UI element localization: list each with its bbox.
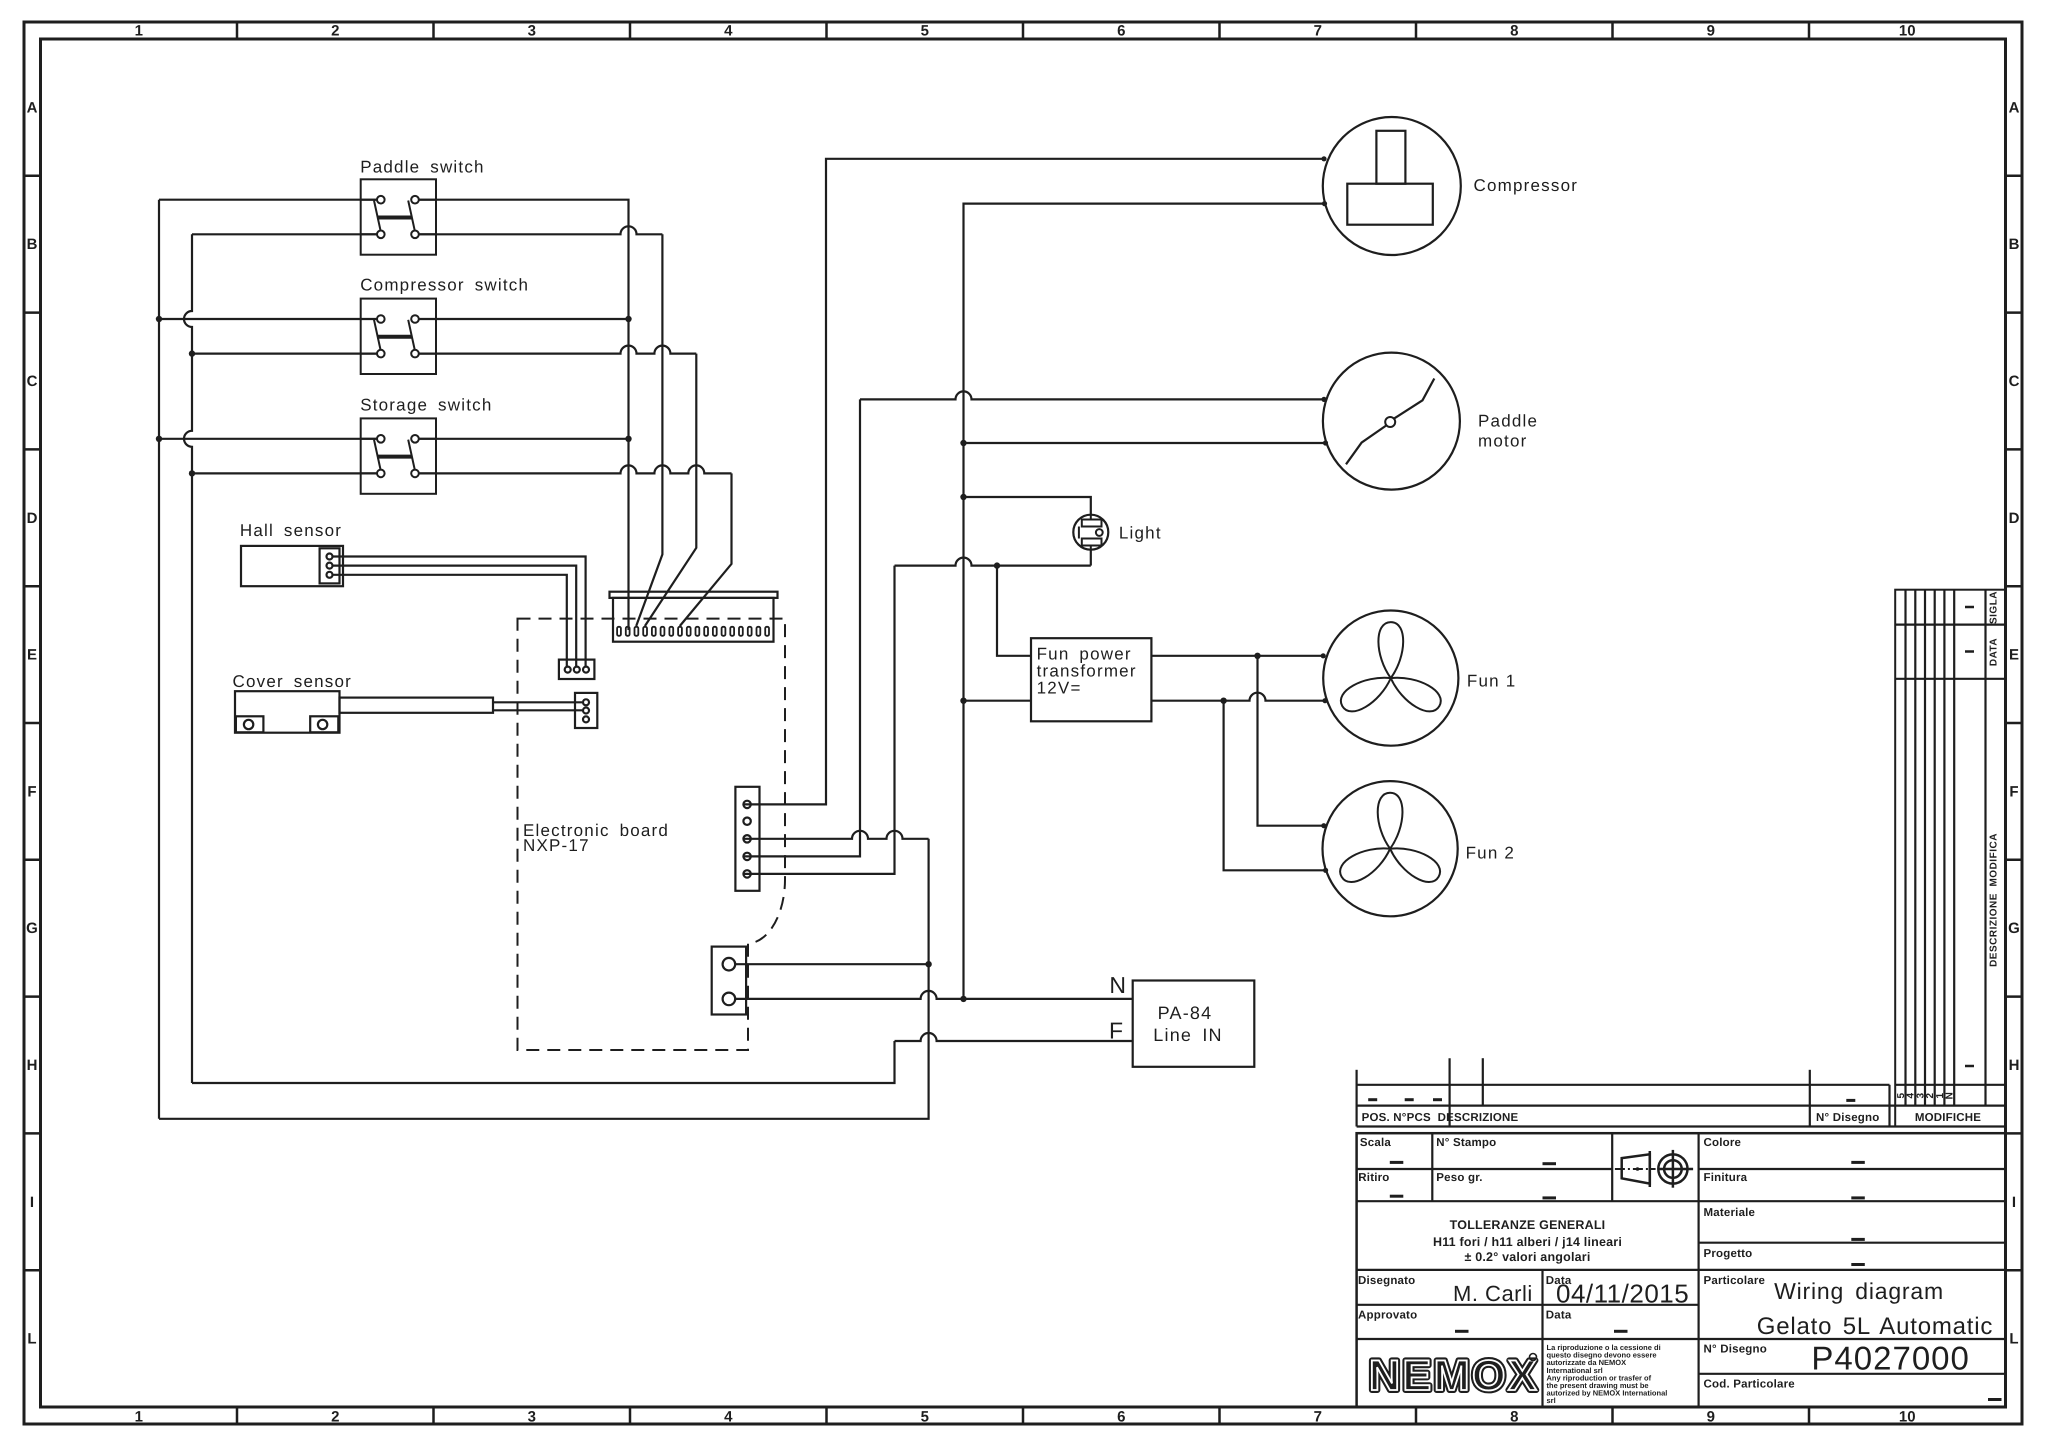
wire: hall pin2 to board J1 pin2 [333, 566, 577, 667]
Hall sensor pins [327, 554, 333, 578]
Paddle switch box [361, 179, 436, 254]
wire: cover sensor lead 2 to board J2 pin2 [493, 709, 582, 711]
junction: x=963.5 / light feed [960, 494, 966, 500]
junction: Fun2 top terminal [1321, 823, 1326, 828]
svg-text:C: C [27, 373, 38, 390]
svg-text:E: E [2009, 647, 2019, 664]
svg-text:Progetto: Progetto [1704, 1248, 1753, 1260]
junction: x=628.5 / S2 top [625, 316, 631, 322]
svg-text:A: A [2009, 99, 2020, 116]
svg-text:± 0.2° valori angolari: ± 0.2° valori angolari [1464, 1250, 1590, 1264]
junction: x=963.5 / N wire [960, 996, 966, 1002]
svg-text:SIGLA: SIGLA [1989, 591, 2000, 624]
svg-text:1: 1 [135, 23, 143, 40]
svg-text:Cover sensor: Cover sensor [233, 672, 353, 691]
svg-text:7: 7 [1314, 23, 1322, 40]
Paddle switch contacts [374, 196, 419, 238]
junction: compressor bottom terminal [1322, 201, 1327, 206]
svg-text:NXP-17: NXP-17 [523, 836, 590, 855]
junction: bus L1 / S3 top feed [156, 436, 162, 442]
column numbers top band [135, 23, 1916, 40]
fan Fun 2 propeller [1335, 793, 1444, 888]
transformer T1 box [1031, 638, 1151, 721]
junction: bus L1 / S2 top feed [156, 316, 162, 322]
svg-text:2: 2 [331, 23, 339, 40]
junction: x=1223.6 tap [1220, 698, 1226, 704]
svg-text:I: I [30, 1194, 34, 1211]
Hall sensor body [241, 546, 343, 586]
svg-text:12V=: 12V= [1037, 679, 1082, 698]
svg-text:8: 8 [1510, 23, 1518, 40]
svg-text:Paddle: Paddle [1478, 411, 1538, 430]
revision column numbers [1896, 1092, 1956, 1100]
svg-text:1: 1 [135, 1409, 143, 1426]
junction: paddle motor bottom terminal [1323, 440, 1328, 445]
wire: J3 pin3 to bottom run via x=928.6 (hops over x=860, x=894.5) [743, 831, 928, 839]
wire: bus L2 bottom run to PA-84 F via x=894.5 (hop at x=928.6) [192, 1041, 895, 1083]
wire: S3 top output joins x=628.5 [419, 438, 629, 440]
svg-text:H: H [2009, 1057, 2020, 1074]
board power connector J4 terminal 1 [723, 958, 736, 971]
switch S1 Paddle switch [360, 158, 485, 255]
svg-text:A: A [27, 99, 38, 116]
svg-text:Materiale: Materiale [1704, 1207, 1756, 1219]
svg-text:E: E [27, 647, 37, 664]
compressor M1 circle [1323, 117, 1461, 255]
svg-text:H: H [27, 1057, 38, 1074]
svg-text:Fun 2: Fun 2 [1466, 844, 1515, 863]
compressor symbol piston [1376, 131, 1405, 184]
svg-text:L: L [27, 1331, 36, 1348]
Compressor switch box [361, 299, 436, 374]
svg-text:Compressor: Compressor [1474, 176, 1579, 195]
svg-text:Colore: Colore [1704, 1137, 1742, 1149]
board connector J1 pins [565, 667, 589, 673]
svg-text:Line IN: Line IN [1153, 1025, 1222, 1045]
svg-text:N: N [1109, 972, 1126, 998]
compressor symbol base [1347, 184, 1433, 225]
title block field labels [1358, 1137, 1795, 1391]
svg-text:motor: motor [1478, 431, 1527, 450]
svg-text:NEMOX: NEMOX [1369, 1352, 1539, 1400]
svg-text:5: 5 [921, 1409, 929, 1426]
svg-text:N° Disegno: N° Disegno [1816, 1112, 1879, 1124]
svg-text:Light: Light [1119, 524, 1162, 543]
paddle motor M2 circle [1323, 353, 1460, 490]
svg-text:Peso gr.: Peso gr. [1436, 1172, 1482, 1184]
svg-text:7: 7 [1314, 1409, 1322, 1426]
Cover sensor cable sheath [340, 698, 494, 713]
svg-text:Fun 1: Fun 1 [1467, 672, 1516, 691]
row letters left band [26, 99, 38, 1347]
Cover sensor body [235, 691, 340, 733]
svg-text:Gelato 5L Automatic: Gelato 5L Automatic [1757, 1313, 1993, 1340]
first-angle projection symbol [1615, 1150, 1693, 1188]
wire: S2 bottom output over x=628.5,662.4 then down x=696.3 to slot 4 [419, 346, 697, 354]
svg-text:Disegnato: Disegnato [1358, 1275, 1415, 1287]
board edge connector CN1 slots [617, 627, 769, 636]
junction: compressor top terminal [1321, 156, 1326, 161]
wire: Storage switch terminals to box edges [361, 439, 436, 474]
fan Fun 2 circle [1323, 781, 1458, 916]
POS header labels [1362, 1112, 1982, 1124]
light lamp symbol [1079, 515, 1103, 550]
svg-text:2: 2 [331, 1409, 339, 1426]
junction: Fun1 top terminal [1321, 653, 1326, 658]
wire: paddle switch top feed (bus L1 to S1) [159, 199, 377, 201]
wire: paddle switch bottom feed (bus L2 to S1) [192, 233, 377, 235]
title block main frame [1357, 1133, 2006, 1407]
wire: left bus L2 (x=192) paddle-bottom down, hops over S2/S3 top feeds [184, 234, 192, 1083]
svg-text:6: 6 [1117, 23, 1125, 40]
svg-text:P4027000: P4027000 [1811, 1340, 1969, 1377]
wire: compressor switch top feed (bus L1 to S2) [159, 318, 377, 320]
wire: J3 pin1 up x=826 to compressor top feed [743, 159, 1322, 805]
paddle motor crank symbol [1346, 379, 1434, 465]
svg-text:POS. N°PCS DESCRIZIONE: POS. N°PCS DESCRIZIONE [1362, 1112, 1519, 1124]
svg-text:Cod. Particolare: Cod. Particolare [1704, 1379, 1795, 1391]
junction: x=628.5 / S3 top [625, 436, 631, 442]
svg-text:9: 9 [1707, 1409, 1715, 1426]
board connector J2 (cover) body [575, 693, 597, 728]
switch S2 Compressor switch [360, 276, 529, 375]
reproduction legal note [1547, 1343, 1668, 1405]
svg-text:10: 10 [1899, 23, 1916, 40]
svg-text:B: B [27, 236, 38, 253]
wire: transformer bottom-left feed from x=963.5 [964, 700, 1032, 702]
svg-text:F: F [27, 783, 36, 800]
wire: x=1223.6 down to Fun2 bottom [1224, 701, 1325, 871]
column numbers bottom band [135, 1409, 1916, 1426]
svg-text:Hall sensor: Hall sensor [240, 521, 342, 540]
junction: x=963.5 / transformer bottom feed [960, 698, 966, 704]
board power connector J4 body [712, 947, 746, 1015]
junction: paddle motor top terminal [1321, 397, 1326, 402]
svg-text:DESCRIZIONE MODIFICA: DESCRIZIONE MODIFICA [1989, 833, 2000, 967]
svg-text:PA-84: PA-84 [1158, 1003, 1213, 1023]
junction: x=997 transformer tap [994, 562, 1000, 568]
wire: left bus L1 (x=159) paddle-top down to bottom run [158, 200, 160, 1119]
svg-text:F: F [1109, 1018, 1123, 1044]
wire: J3 pin4 up x=860 to paddle motor top feed (hop at x=963.5) [743, 399, 860, 856]
svg-text:5: 5 [921, 23, 929, 40]
wire: storage switch top feed (bus L1 to S3) [159, 438, 377, 440]
svg-text:Data: Data [1546, 1310, 1572, 1322]
wire: transformer top-right to Fun1 top [1151, 655, 1322, 657]
svg-text:F: F [2009, 783, 2018, 800]
fan Fun 1 propeller [1336, 622, 1445, 717]
Storage switch box [361, 418, 436, 493]
svg-text:N: N [1945, 1092, 1956, 1100]
row letters right band [2008, 99, 2020, 1347]
revisions table headers [1989, 591, 2000, 967]
svg-text:D: D [27, 510, 38, 527]
Hall sensor connector [320, 548, 340, 583]
wire: S3 bottom output over x=628.5,662.4,696.3 then down x=731.5 to slot 8 [419, 465, 732, 473]
wire: compressor bottom feed from x=963.5 [964, 204, 1325, 999]
junction: bus L2 / S3 bottom feed [189, 470, 195, 476]
junction: bus L2 / S2 bottom feed [189, 350, 195, 356]
svg-text:4: 4 [724, 23, 733, 40]
Cover sensor mounting lug right [310, 716, 338, 732]
light LP1 circle [1073, 515, 1108, 550]
wire: x=1257.5 down to Fun2 top [1258, 656, 1323, 826]
title block empty-value dashes [1390, 1162, 2002, 1399]
svg-text:Approvato: Approvato [1358, 1310, 1417, 1322]
svg-text:autorized by NEMOX Internation: autorized by NEMOX International [1547, 1389, 1668, 1398]
svg-text:9: 9 [1707, 23, 1715, 40]
Compressor switch contacts [374, 315, 419, 357]
wire: light return to J3 pin5 via x=894.5 (hop at x=963.5) [1090, 550, 1092, 566]
svg-text:Storage switch: Storage switch [360, 396, 492, 415]
svg-text:4: 4 [724, 1409, 733, 1426]
svg-text:M. Carli: M. Carli [1453, 1281, 1533, 1306]
svg-text:Compressor switch: Compressor switch [360, 276, 529, 295]
wire: S1 top output to board connector (vertical x=628.5, slot 2) [419, 200, 629, 630]
Cover sensor mounting lug left [236, 716, 264, 732]
junction: x=963.5 / paddle motor feed [960, 440, 966, 446]
wire: Paddle switch terminals to box edges [361, 200, 436, 235]
svg-text:I: I [2012, 1194, 2016, 1211]
parts list table (POS strip) [1357, 1058, 2006, 1126]
PA-84 Line IN box [1133, 981, 1255, 1067]
svg-text:Ritiro: Ritiro [1358, 1172, 1389, 1184]
junction: Fun2 bottom terminal [1323, 868, 1328, 873]
svg-text:MODIFICHE: MODIFICHE [1915, 1112, 1981, 1124]
Storage switch contacts [374, 435, 419, 477]
Cover sensor lug hole right [318, 720, 327, 729]
wire: Compressor switch terminals to box edges [361, 319, 436, 354]
svg-text:Finitura: Finitura [1704, 1172, 1748, 1184]
svg-text:N° Disegno: N° Disegno [1704, 1344, 1767, 1356]
svg-text:Wiring diagram: Wiring diagram [1774, 1278, 1944, 1304]
svg-text:10: 10 [1899, 1409, 1916, 1426]
board connector J2 pins [583, 699, 589, 722]
board connector J3 pins [743, 801, 750, 878]
wire: S1 bottom output over x=628.5 then down x=662.4 to slot 3 [419, 226, 663, 234]
svg-text:N° Stampo: N° Stampo [1436, 1137, 1496, 1149]
svg-text:Scala: Scala [1360, 1137, 1391, 1149]
wire: paddle motor bottom feed from x=963.5 [964, 442, 1325, 444]
wire: hall pin1 to board J1 pin3 [333, 557, 586, 667]
wire: hall pin3 to board J1 pin1 [333, 575, 567, 667]
svg-text:G: G [2008, 920, 2020, 937]
svg-text:Particolare: Particolare [1704, 1275, 1766, 1287]
Cover sensor lug hole left [244, 720, 253, 729]
fan Fun 1 circle [1323, 611, 1458, 746]
wire: cover sensor lead 1 to board J2 pin1 [493, 701, 582, 703]
revisions table (MODIFICHE) [1895, 590, 2005, 1127]
board edge connector CN1 flange [610, 592, 778, 598]
tolerances note [1433, 1218, 1622, 1264]
svg-text:D: D [2009, 510, 2020, 527]
wire: compressor switch bottom feed (bus L2 to S2) [192, 353, 377, 355]
svg-text:srl: srl [1547, 1396, 1556, 1405]
svg-text:G: G [26, 920, 38, 937]
junction: x=1257.5 tap [1254, 653, 1260, 659]
svg-text:H11 fori / h11 alberi / j14 li: H11 fori / h11 alberi / j14 lineari [1433, 1235, 1622, 1249]
board edge connector CN1 body [613, 598, 774, 642]
wire: transformer top-left feed from x=997 [997, 566, 1031, 656]
wire: storage switch bottom feed (bus L2 to S3) [192, 472, 377, 474]
board connector J1 (hall) body [559, 660, 595, 679]
board power connector J4 terminal 2 [723, 993, 736, 1006]
svg-text:04/11/2015: 04/11/2015 [1556, 1279, 1689, 1309]
svg-text:DATA: DATA [1989, 638, 2000, 666]
board connector J3 (5-pin) body [735, 787, 759, 891]
wire: light top feed from x=963.5 [964, 497, 1091, 515]
svg-text:3: 3 [528, 1409, 536, 1426]
svg-text:Paddle switch: Paddle switch [360, 158, 485, 177]
electronic board NXP-17 dashed outline [518, 619, 786, 1050]
svg-text:C: C [2009, 373, 2020, 390]
wire: J4 terminal2 to PA-84 N (hop at x=928.6) [735, 991, 1132, 999]
switch S3 Storage switch [360, 396, 492, 494]
wire: S2 top output joins x=628.5 [419, 318, 629, 320]
svg-text:TOLLERANZE GENERALI: TOLLERANZE GENERALI [1450, 1218, 1606, 1232]
svg-text:3: 3 [528, 23, 536, 40]
svg-text:6: 6 [1117, 1409, 1125, 1426]
junction: Fun1 bottom terminal [1322, 698, 1327, 703]
svg-text:L: L [2009, 1331, 2018, 1348]
wire: J4 terminal1 to x=928.6 [735, 963, 928, 965]
svg-text:B: B [2009, 236, 2020, 253]
svg-text:8: 8 [1510, 1409, 1518, 1426]
wire: transformer bottom-right to Fun1 bottom (hop at x=1257.5) [1151, 693, 1323, 701]
junction: x=928.6 / J4 terminal1 [925, 961, 931, 967]
